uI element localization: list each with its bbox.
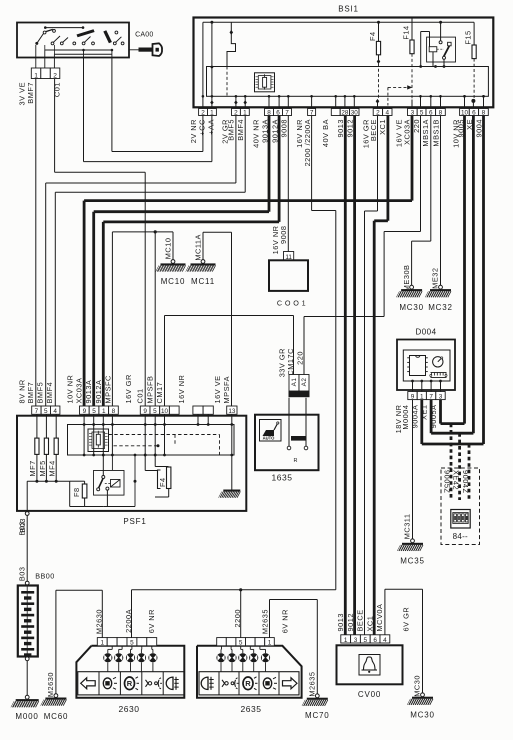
- svg-text:XE: XE: [465, 119, 474, 130]
- svg-text:MC311: MC311: [403, 514, 412, 540]
- svg-text:MF5: MF5: [38, 460, 47, 476]
- svg-text:MC30: MC30: [399, 303, 424, 312]
- svg-text:MC10: MC10: [163, 238, 172, 260]
- svg-text:R: R: [245, 679, 251, 688]
- svg-text:7: 7: [429, 393, 433, 400]
- svg-text:16V NR: 16V NR: [177, 375, 186, 404]
- svg-text:5: 5: [44, 408, 48, 415]
- svg-text:6: 6: [429, 109, 433, 116]
- svg-text:MPSFC: MPSFC: [103, 375, 112, 404]
- svg-text:CM17: CM17: [155, 382, 164, 404]
- svg-text:7: 7: [35, 408, 39, 415]
- svg-text:7: 7: [285, 109, 289, 116]
- svg-text:C01: C01: [53, 82, 62, 97]
- svg-text:MC30: MC30: [410, 711, 435, 720]
- svg-text:6: 6: [472, 109, 476, 116]
- svg-text:AUTO: AUTO: [263, 436, 276, 441]
- svg-text:BB00: BB00: [35, 572, 55, 581]
- svg-text:5: 5: [130, 640, 134, 647]
- svg-text:40V BA: 40V BA: [321, 119, 330, 147]
- svg-text:ME32: ME32: [431, 268, 440, 289]
- svg-text:XC03A: XC03A: [75, 378, 84, 404]
- svg-text:PSF1: PSF1: [123, 517, 146, 526]
- svg-text:1635: 1635: [272, 473, 293, 483]
- svg-text:C01: C01: [136, 388, 145, 403]
- svg-text:9005A: 9005A: [429, 405, 438, 429]
- svg-text:9: 9: [83, 408, 87, 415]
- svg-text:5: 5: [92, 408, 96, 415]
- svg-text:M2635: M2635: [261, 609, 270, 634]
- svg-text:MC30: MC30: [413, 675, 422, 697]
- svg-text:9013A: 9013A: [260, 119, 269, 143]
- svg-text:5: 5: [239, 640, 243, 647]
- svg-text:2630: 2630: [119, 704, 140, 714]
- svg-text:1: 1: [210, 109, 214, 116]
- svg-text:BMF7: BMF7: [26, 382, 35, 404]
- svg-text:9012A: 9012A: [94, 380, 103, 404]
- svg-text:MF7: MF7: [28, 460, 37, 476]
- svg-text:10: 10: [161, 408, 169, 415]
- svg-text:+CC: +CC: [198, 119, 207, 136]
- svg-text:16V GR: 16V GR: [124, 374, 133, 403]
- svg-text:BECE: BECE: [356, 609, 365, 631]
- svg-text:8: 8: [112, 408, 116, 415]
- svg-text:XE42: XE42: [451, 470, 460, 490]
- svg-text:F8: F8: [72, 487, 81, 497]
- svg-text:M000: M000: [15, 712, 38, 721]
- svg-text:1: 1: [34, 72, 38, 79]
- svg-text:1: 1: [102, 408, 106, 415]
- svg-text:MCV0A: MCV0A: [375, 604, 384, 632]
- svg-text:6V NR: 6V NR: [147, 609, 156, 633]
- svg-text:BMF5: BMF5: [227, 119, 236, 141]
- svg-text:13: 13: [228, 408, 236, 415]
- svg-text:C O O 1: C O O 1: [277, 299, 306, 308]
- svg-text:2: 2: [201, 109, 205, 116]
- svg-text:40V NR: 40V NR: [251, 119, 260, 148]
- svg-text:MBS1B: MBS1B: [431, 119, 440, 147]
- svg-text:10: 10: [461, 109, 469, 116]
- svg-text:2: 2: [234, 109, 238, 116]
- svg-text:MC10: MC10: [161, 277, 186, 286]
- svg-text:MC70: MC70: [305, 711, 330, 720]
- svg-text:10V NR: 10V NR: [65, 375, 74, 404]
- svg-text:F4: F4: [368, 31, 377, 41]
- svg-text:9: 9: [411, 393, 415, 400]
- svg-text:XC1: XC1: [378, 119, 387, 135]
- svg-text:B03: B03: [18, 521, 27, 536]
- svg-text:8: 8: [439, 109, 443, 116]
- svg-text:BMF7: BMF7: [26, 82, 35, 104]
- svg-text:+AA: +AA: [207, 119, 216, 135]
- svg-text:MF4: MF4: [47, 460, 56, 476]
- svg-text:8V NR: 8V NR: [17, 379, 26, 403]
- svg-text:MC11: MC11: [191, 277, 215, 286]
- svg-text:R: R: [127, 679, 133, 688]
- svg-text:2: 2: [376, 109, 380, 116]
- svg-text:9004: 9004: [474, 119, 483, 137]
- svg-text:7: 7: [310, 109, 314, 116]
- svg-text:6: 6: [276, 109, 280, 116]
- svg-text:4: 4: [53, 408, 57, 415]
- svg-text:M0004: M0004: [401, 405, 410, 430]
- svg-text:5: 5: [420, 109, 424, 116]
- svg-text:3: 3: [439, 393, 443, 400]
- svg-text:84--: 84--: [453, 532, 468, 541]
- svg-text:3: 3: [411, 109, 415, 116]
- svg-text:9: 9: [143, 408, 147, 415]
- svg-text:1: 1: [100, 640, 104, 647]
- svg-text:CV00: CV00: [358, 690, 381, 699]
- svg-text:9008: 9008: [280, 119, 289, 137]
- svg-text:A2: A2: [301, 378, 308, 387]
- svg-text:CA00: CA00: [135, 32, 153, 39]
- svg-text:R: R: [294, 458, 298, 464]
- svg-text:9005Z: 9005Z: [443, 470, 452, 493]
- svg-text:XC1: XC1: [365, 616, 374, 632]
- svg-text:3: 3: [354, 637, 358, 644]
- svg-text:ME30B: ME30B: [402, 265, 411, 292]
- svg-text:8: 8: [267, 109, 271, 116]
- svg-text:M2630: M2630: [95, 609, 104, 634]
- svg-text:BECE: BECE: [369, 119, 378, 141]
- svg-text:9012A: 9012A: [270, 119, 279, 143]
- svg-text:BMF5: BMF5: [36, 382, 45, 404]
- svg-text:M2635: M2635: [308, 672, 317, 697]
- svg-text:MPSFA: MPSFA: [222, 376, 231, 404]
- svg-text:4: 4: [386, 109, 390, 116]
- svg-text:6: 6: [373, 637, 377, 644]
- svg-text:6V GR: 6V GR: [401, 607, 410, 632]
- svg-text:1: 1: [344, 637, 348, 644]
- svg-text:2: 2: [53, 72, 57, 79]
- svg-text:A1: A1: [291, 378, 298, 387]
- svg-text:MPSFB: MPSFB: [146, 376, 155, 404]
- svg-text:5: 5: [364, 637, 368, 644]
- svg-text:8: 8: [482, 109, 486, 116]
- svg-text:1: 1: [243, 109, 247, 116]
- svg-text:XC03A: XC03A: [402, 119, 411, 145]
- svg-text:9012: 9012: [346, 613, 355, 631]
- svg-text:9008: 9008: [279, 226, 288, 244]
- svg-text:F4: F4: [158, 477, 167, 487]
- svg-text:2200: 2200: [233, 609, 242, 627]
- svg-text:B03: B03: [18, 567, 27, 582]
- svg-text:220: 220: [296, 351, 305, 365]
- svg-text:2200A: 2200A: [124, 609, 133, 633]
- svg-text:4: 4: [383, 637, 387, 644]
- svg-text:BSI1: BSI1: [338, 5, 359, 14]
- svg-text:MC60: MC60: [44, 712, 69, 721]
- svg-text:5: 5: [153, 408, 157, 415]
- svg-text:30: 30: [351, 109, 359, 116]
- svg-text:XE1: XE1: [420, 405, 429, 420]
- svg-text:D004: D004: [415, 328, 436, 337]
- svg-text:1: 1: [420, 393, 424, 400]
- svg-text:16V VE: 16V VE: [213, 375, 222, 403]
- svg-text:2200 /2200A: 2200 /2200A: [303, 119, 312, 166]
- svg-text:28: 28: [341, 109, 349, 116]
- svg-text:9004Z: 9004Z: [461, 470, 470, 493]
- svg-text:9013A: 9013A: [84, 380, 93, 404]
- svg-text:2635: 2635: [241, 704, 262, 714]
- svg-text:1: 1: [268, 640, 272, 647]
- svg-text:MC35: MC35: [400, 557, 425, 566]
- svg-text:F14: F14: [401, 25, 410, 39]
- svg-text:MC32: MC32: [428, 303, 453, 312]
- svg-text:9013: 9013: [336, 119, 345, 137]
- svg-text:CM17C: CM17C: [286, 348, 295, 376]
- svg-text:BMF4: BMF4: [236, 119, 245, 141]
- svg-text:MC11A: MC11A: [193, 234, 202, 261]
- svg-text:9004A: 9004A: [410, 405, 419, 429]
- svg-text:220: 220: [412, 119, 421, 133]
- svg-text:9013: 9013: [336, 613, 345, 631]
- svg-text:M2630: M2630: [46, 672, 55, 697]
- svg-text:F15: F15: [464, 30, 473, 44]
- svg-text:9012: 9012: [346, 119, 355, 137]
- svg-text:MBS1A: MBS1A: [421, 119, 430, 147]
- svg-text:BMF4: BMF4: [45, 382, 54, 404]
- svg-text:6V NR: 6V NR: [281, 609, 290, 633]
